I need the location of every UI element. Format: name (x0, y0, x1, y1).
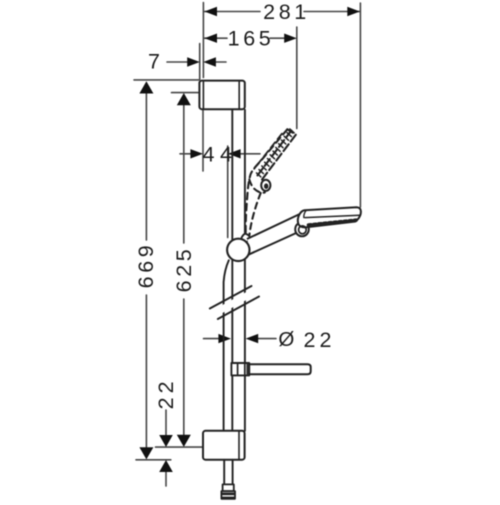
dimension 44 arrow pointing left (228, 149, 241, 158)
dimension 165 line (204, 37, 285, 39)
hand shower phantom joint curve (249, 180, 264, 193)
extension line wall-cover edge (left reference) (202, 3, 204, 172)
hand shower phantom pivot ball (261, 180, 270, 191)
dimension dia22 tails (204, 338, 277, 340)
hand shower holder nub (240, 233, 251, 244)
dimension 165 arrow left (204, 34, 217, 43)
svg-text:281: 281 (263, 0, 310, 24)
svg-text:165: 165 (228, 26, 275, 50)
bottom wall bracket (203, 431, 245, 460)
extension line bracket bottom plane (669 end) (136, 459, 171, 461)
dimension 281 arrow left (204, 7, 217, 16)
soap dish clamp (231, 363, 249, 375)
dimension 669 arrow down (139, 447, 153, 459)
top wall bracket cover edge (202, 81, 204, 109)
hand shower pivot ball outer (295, 222, 309, 236)
dimension 44 arrow pointing right (190, 149, 203, 158)
hand shower head inner line (305, 215, 360, 217)
dimension 625 arrow down (177, 435, 191, 447)
extension line top of rail (625) (172, 92, 199, 94)
shower hose upper run (224, 260, 229, 429)
hose nut (221, 491, 235, 499)
hand shower holder pivot knob (227, 239, 249, 261)
dimension 669 line (145, 92, 147, 448)
svg-text:44: 44 (203, 143, 238, 167)
svg-text:669: 669 (134, 242, 158, 289)
top wall bracket (199, 81, 244, 110)
dimension 7 arrow pointing left (203, 57, 216, 66)
hose break gap (214, 291, 255, 314)
hand shower phantom spray face inner (257, 131, 291, 176)
dimension 7 arrow pointing right (187, 57, 200, 66)
dimension 22 line (165, 410, 167, 486)
hand shower handle body (248, 213, 303, 255)
hose break mark upper (210, 286, 252, 309)
dimension 44 tails (180, 153, 260, 155)
extension line top of bracket (669) (134, 79, 199, 81)
dimension 281 line (204, 11, 360, 13)
hose break mark lower (218, 297, 259, 320)
hose nut band 1 (222, 493, 235, 496)
extension line shower tip (165) (296, 27, 298, 129)
hand shower phantom pivot ball inner (264, 183, 268, 189)
hand shower head body (298, 207, 361, 227)
svg-text:625: 625 (172, 246, 196, 293)
extension line rail bottom plane (447) (156, 446, 204, 448)
hose nut band 2 (222, 497, 235, 499)
dimension dia22 arrow pointing right (218, 334, 231, 343)
dimension 22 arrow up (159, 460, 173, 472)
dimension 165 arrow right (284, 34, 297, 43)
soap dish tray (249, 364, 311, 374)
hand shower phantom (dashed) left edge and handle (246, 129, 288, 235)
dimension 625 arrow up (177, 93, 191, 105)
dimension 22 arrow down (159, 435, 173, 447)
hand shower phantom spray hatch (257, 129, 295, 177)
dimension 7 tails (167, 61, 226, 63)
bottom wall bracket inner edge (238, 431, 240, 460)
soap dish clamp dark band (246, 364, 249, 375)
extension line shower tip (281) (359, 3, 361, 207)
hose lower run below bracket (224, 460, 232, 485)
dimension 669 arrow up (139, 81, 153, 93)
dimension 625 line (183, 104, 185, 436)
extension line holder axis (44) (227, 146, 229, 238)
dimension 281 arrow right (347, 7, 360, 16)
hand shower phantom top edge (287, 129, 296, 134)
extension line wall plane (199, 44, 201, 80)
shower rail tube (232, 110, 245, 431)
hand shower handle bottom edge (248, 233, 297, 255)
svg-text:22: 22 (304, 328, 336, 352)
svg-text:22: 22 (154, 377, 178, 409)
hand shower handle top edge (248, 213, 303, 239)
hand shower head end cap line (304, 210, 306, 217)
hand shower head nozzle row (309, 220, 357, 225)
hose collar (223, 484, 234, 491)
hand shower phantom spray face outer (261, 135, 296, 181)
svg-text:7: 7 (148, 50, 160, 74)
top wall bracket inner edge (238, 81, 240, 109)
hand shower pivot ball inner (299, 226, 307, 234)
hand shower phantom mid line (254, 134, 282, 169)
hand shower phantom handle right edge (249, 193, 260, 235)
dimension dia22 arrow pointing left (246, 334, 259, 343)
soap dish clamp ribs (238, 363, 245, 375)
svg-text:Ø: Ø (278, 328, 294, 351)
